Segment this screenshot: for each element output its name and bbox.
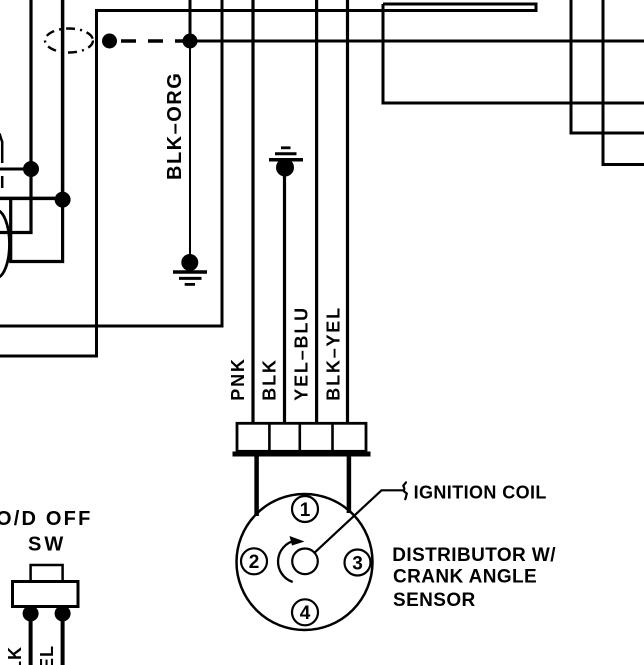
left-edge fragment vertical 2 [1, 176, 4, 188]
junction dot C (31,169) [23, 161, 39, 177]
leader squiggle [403, 482, 407, 499]
svg-text:BLK–YEL: BLK–YEL [324, 306, 344, 401]
horizontal wire y=198.4 to junction dot D [0, 197, 63, 201]
distributor body circle [237, 494, 373, 630]
ground symbol bars (BLK-ORG) [173, 272, 207, 284]
left-edge switch fragment (diagonal) [0, 134, 2, 143]
connector block thick bottom edge [233, 452, 371, 457]
ground symbol (pointing up) above BLK wire [269, 148, 303, 160]
O/D OFF switch small top box [31, 565, 63, 582]
connector block outline [237, 423, 366, 451]
svg-text:4: 4 [300, 603, 311, 624]
wire x=31 down to (0,232.5) [0, 0, 31, 233]
leader line to IGNITION COIL [315, 490, 403, 552]
connector divider 1 [268, 423, 271, 451]
switch terminal dot right [55, 606, 71, 622]
rotation arrow arc [278, 541, 295, 583]
svg-text:BLK–ORG: BLK–ORG [164, 72, 186, 180]
pin 3 circle [345, 550, 371, 576]
left-edge fragment vertical 1 [1, 141, 4, 163]
svg-text:IGNITION COIL: IGNITION COIL [414, 482, 547, 502]
junction dot D (62.6,199.6) [55, 192, 71, 208]
wire YEL-BLU x=316.6 [315, 0, 318, 423]
wire: BLK-ORG vertical stub x=190 from top edge [189, 0, 192, 41]
rotor center circle [292, 549, 318, 575]
svg-text:SW: SW [28, 534, 66, 556]
rotation arrowhead [290, 536, 305, 546]
pin 4 circle [292, 599, 318, 625]
wire x=62.6 from top [61, 0, 65, 200]
distributor lead wire right [347, 452, 352, 513]
wire: solid horizontal y=41 from dot B to right edge [190, 40, 644, 43]
left-edge component ellipse fragment [0, 210, 10, 278]
wire YEL from switch right terminal [61, 614, 65, 665]
connector divider 2 [298, 423, 301, 451]
connector grouping dash-dot ellipse [45, 29, 93, 53]
switch terminal dot left [23, 606, 39, 622]
wire: top bus y=4 with U-turn at x=537, return at y=10.5, down x=96.5 to (0,356) [0, 4, 536, 356]
svg-text:DISTRIBUTOR W/: DISTRIBUTOR W/ [392, 545, 556, 566]
junction dot A (109.5,41) [102, 34, 117, 49]
horizontal wire y=169 to junction dot C [0, 168, 31, 171]
pin 1 circle [292, 496, 318, 522]
wire BLK x=284.5 [283, 170, 286, 423]
svg-text:SENSOR: SENSOR [393, 590, 476, 611]
pin 2 circle [241, 548, 267, 574]
wire U-loop from dot D down and back up [11, 200, 63, 262]
svg-text:CRANK ANGLE: CRANK ANGLE [393, 566, 537, 587]
wire PNK x=253.5 [251, 0, 254, 423]
junction dot B (190,41) [183, 34, 198, 49]
wire x=222 down to (0,326) [0, 0, 222, 326]
svg-text:PNK: PNK [228, 357, 248, 400]
wire x=383 corner to right edge at y=103 [383, 4, 644, 103]
svg-text:BLK: BLK [5, 646, 25, 665]
svg-text:YEL: YEL [37, 645, 57, 665]
distributor lead wire left [254, 452, 259, 516]
wire x=603 corner to right edge at y=164.5 [603, 0, 644, 165]
svg-text:YEL–BLU: YEL–BLU [292, 306, 312, 401]
ground dot above BLK wire [276, 159, 294, 177]
wire: BLK-ORG drop from dot B to ground [189, 41, 191, 256]
connector divider 3 [331, 423, 334, 451]
svg-text:O/D OFF: O/D OFF [0, 508, 93, 530]
svg-text:2: 2 [249, 552, 260, 573]
ground dot of BLK-ORG wire [181, 254, 198, 271]
svg-text:1: 1 [300, 500, 311, 521]
wire BLK-YEL x=347.5 [346, 0, 349, 423]
svg-text:3: 3 [352, 553, 363, 574]
wire x=571 corner to right edge at y=133 [571, 0, 644, 133]
wire BLK from switch left terminal [29, 614, 33, 665]
O/D OFF switch body box [13, 582, 79, 607]
wire: dash-dot segment between junction dots on y=41 [121, 39, 190, 43]
svg-text:BLK: BLK [260, 358, 280, 400]
